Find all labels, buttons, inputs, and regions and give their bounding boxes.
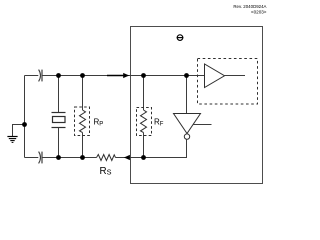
arrow into XIN xyxy=(107,73,129,78)
resistor RP xyxy=(80,110,86,133)
resistor RP branch wire top xyxy=(82,76,84,111)
node: RP top junction xyxy=(80,73,85,78)
arrow out of XOUT xyxy=(124,155,130,160)
inverter U2 output wire xyxy=(186,139,188,157)
svg-text:<0203>: <0203> xyxy=(251,10,267,15)
dashed box around RF xyxy=(137,108,152,136)
svg-text:Rev. 2040D924A: Rev. 2040D924A xyxy=(233,4,266,9)
revision text top right xyxy=(233,4,266,15)
node: ground junction on rail xyxy=(22,122,27,127)
inverter U2 input wire xyxy=(186,76,188,114)
dashed box around buffer xyxy=(198,59,258,105)
resistor RF branch wire bottom xyxy=(143,133,145,158)
node: inverter input junction xyxy=(184,73,189,78)
crystal Y1 xyxy=(52,113,66,128)
node: crystal bottom junction xyxy=(56,155,61,160)
node: crystal top junction xyxy=(56,73,61,78)
node: RP bottom junction xyxy=(80,155,85,160)
wire: bottom XOUT horizontal xyxy=(25,157,39,159)
wire: top XIN horizontal xyxy=(25,75,39,77)
crystal Y1 branch wire bottom xyxy=(58,128,60,158)
capacitor C2 (bottom) xyxy=(39,152,42,164)
buffer U3 xyxy=(205,64,225,88)
buffer U3 output wire xyxy=(225,75,246,77)
node: RF bottom junction xyxy=(141,155,146,160)
ground xyxy=(7,125,24,143)
IC box U1 xyxy=(131,27,263,184)
wire: left rail vertical xyxy=(24,76,26,158)
capacitor C1 (top) xyxy=(39,70,42,82)
theta symbol inside IC box xyxy=(177,35,184,41)
dashed box around RP xyxy=(75,107,90,136)
crystal Y1 branch wire top xyxy=(58,76,60,113)
inverter U2 xyxy=(174,114,212,140)
resistor RS xyxy=(97,155,116,161)
svg-text:RS: RS xyxy=(100,166,112,177)
node: RF top junction xyxy=(141,73,146,78)
resistor RF branch wire top xyxy=(143,76,145,111)
resistor RF xyxy=(141,110,147,133)
resistor RP branch wire bottom xyxy=(82,133,84,158)
